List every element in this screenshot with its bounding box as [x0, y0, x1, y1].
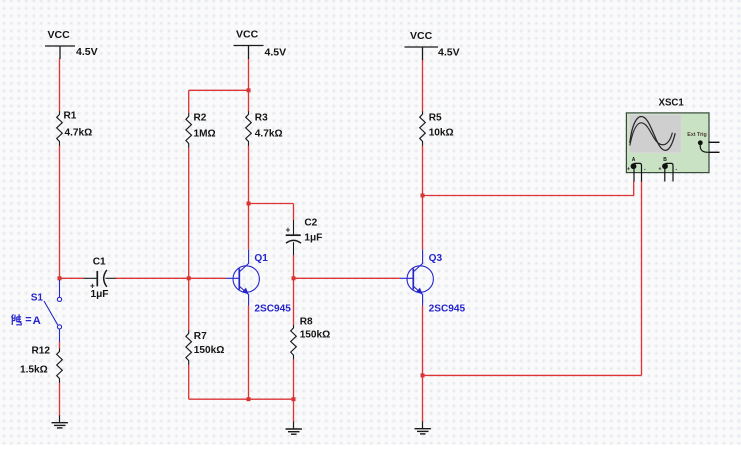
- svg-text:2SC945: 2SC945: [429, 304, 466, 315]
- svg-text:1μF: 1μF: [91, 289, 109, 300]
- svg-text:XSC1: XSC1: [659, 97, 685, 108]
- svg-text:Q3: Q3: [429, 253, 443, 264]
- svg-text:4.5V: 4.5V: [438, 47, 460, 59]
- svg-text:R5: R5: [429, 113, 442, 124]
- svg-text:150kΩ: 150kΩ: [300, 330, 331, 341]
- svg-text:C2: C2: [304, 218, 317, 229]
- svg-text:R12: R12: [32, 346, 51, 357]
- svg-text:S1: S1: [31, 292, 44, 303]
- svg-text:150kΩ: 150kΩ: [194, 345, 225, 356]
- svg-text:2SC945: 2SC945: [254, 304, 291, 315]
- svg-text:10kΩ: 10kΩ: [429, 128, 454, 139]
- svg-text:R1: R1: [64, 111, 77, 122]
- svg-text:C1: C1: [93, 257, 106, 268]
- svg-text:+: +: [627, 166, 630, 172]
- svg-text:4.7kΩ: 4.7kΩ: [255, 129, 283, 140]
- svg-text:Q1: Q1: [254, 253, 268, 264]
- svg-text:VCC: VCC: [48, 29, 71, 41]
- svg-text:A: A: [33, 315, 41, 327]
- svg-text:A: A: [632, 157, 636, 163]
- svg-text:R8: R8: [300, 317, 313, 328]
- svg-text:B: B: [663, 157, 667, 163]
- svg-text:=: =: [25, 314, 31, 326]
- svg-text:1MΩ: 1MΩ: [194, 129, 216, 140]
- svg-text:4.7kΩ: 4.7kΩ: [65, 128, 93, 139]
- svg-text:+: +: [659, 166, 662, 172]
- svg-text:4.5V: 4.5V: [76, 46, 98, 58]
- svg-text:Ext Trig: Ext Trig: [687, 132, 706, 138]
- svg-text:+: +: [286, 225, 291, 234]
- svg-text:4.5V: 4.5V: [265, 47, 287, 59]
- svg-text:1.5kΩ: 1.5kΩ: [20, 365, 48, 376]
- svg-text:VCC: VCC: [410, 30, 433, 42]
- svg-text:VCC: VCC: [236, 29, 259, 41]
- svg-text:1μF: 1μF: [304, 232, 322, 243]
- svg-text:R2: R2: [194, 113, 207, 124]
- svg-text:R3: R3: [255, 113, 268, 124]
- svg-text:R7: R7: [194, 331, 207, 342]
